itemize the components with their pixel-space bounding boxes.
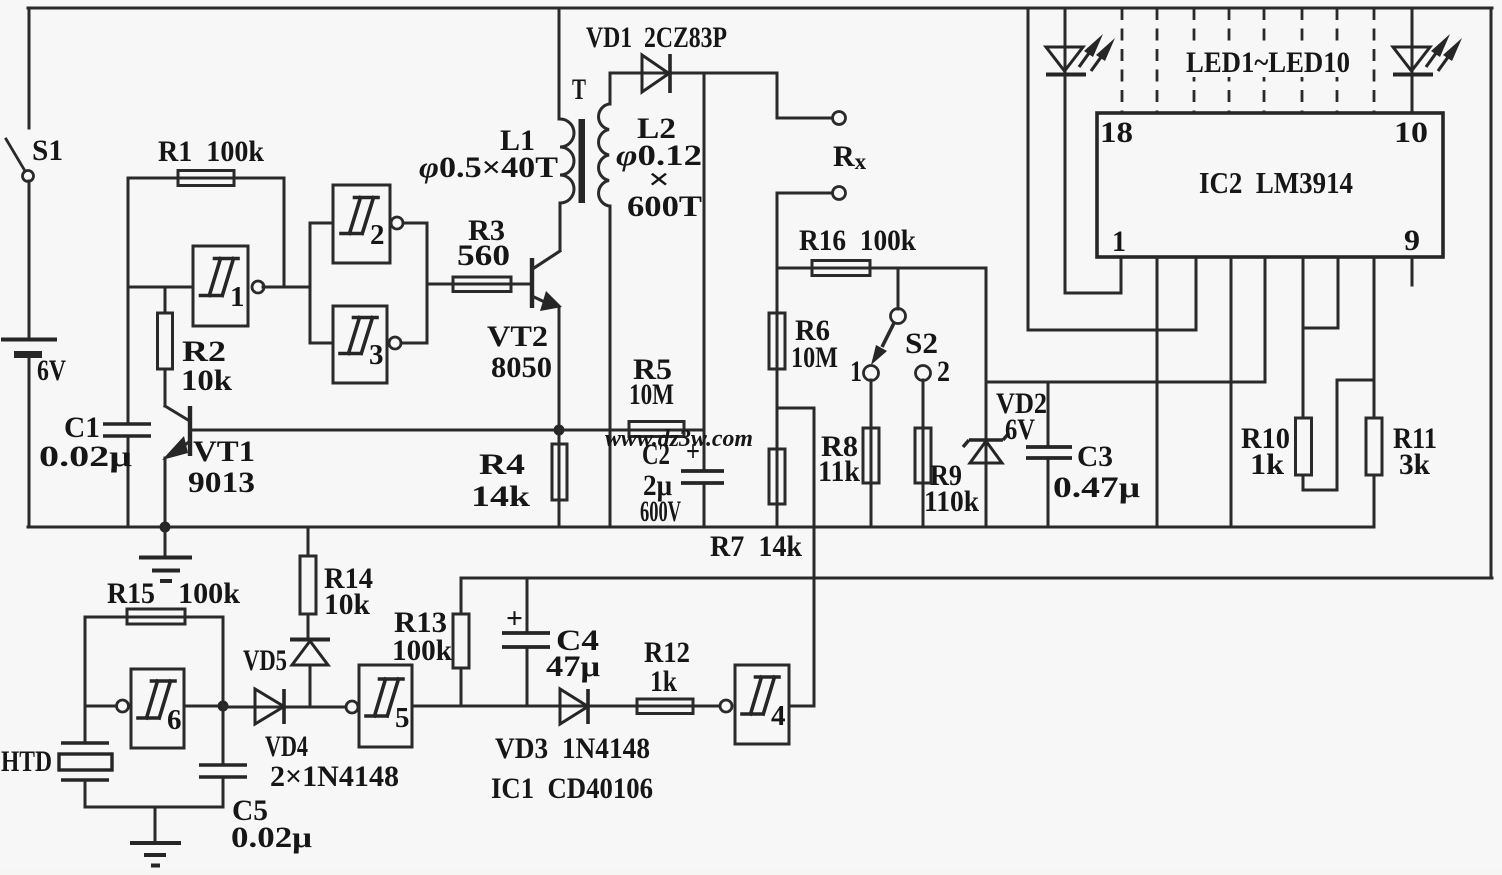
wire S1 to battery [28, 181, 31, 338]
svg-text:HTD: HTD [1, 745, 52, 778]
node VT1 emitter bus junction [160, 522, 171, 533]
svg-text:110k: 110k [924, 485, 979, 518]
svg-text:T: T [572, 73, 586, 106]
diode VD1 2CZ83P [586, 21, 777, 93]
wire regulated supply node [986, 381, 1265, 384]
svg-text:9: 9 [1404, 224, 1420, 257]
wire pin4 to bus [1230, 257, 1233, 527]
op-amp U3 schmitt inverter 3 [333, 306, 427, 383]
resistor R7 [710, 408, 802, 563]
op-amp U5 schmitt inverter 5 [346, 665, 412, 747]
node LED1-LED10 net label [1182, 46, 1354, 79]
diode VD2 zener 6V [963, 268, 1047, 527]
wire split to U2 U3 [310, 223, 333, 343]
switch S1 [6, 134, 63, 182]
inductor L1 primary [419, 119, 574, 203]
resistor R16 [777, 224, 986, 276]
transformer T core [572, 73, 586, 203]
wire left column [127, 178, 130, 527]
resistor R1 [158, 135, 264, 186]
svg-text:R1 100k: R1 100k [158, 135, 264, 168]
svg-text:VD5: VD5 [243, 644, 287, 677]
svg-text:IC1 CD40106: IC1 CD40106 [491, 772, 653, 805]
resistor R6 [769, 268, 838, 408]
svg-text:S1: S1 [32, 134, 63, 167]
svg-text:9013: 9013 [188, 466, 255, 499]
LED1 [1046, 8, 1115, 293]
svg-text:5: 5 [395, 702, 410, 734]
svg-text:1: 1 [1112, 225, 1126, 258]
wire top border bus [28, 7, 1492, 10]
svg-text:3k: 3k [1399, 448, 1430, 481]
svg-text:Rx: Rx [833, 140, 867, 174]
wire Rx bottom to R16 [777, 193, 832, 268]
svg-text:C3: C3 [1077, 440, 1113, 473]
resistor R3 [427, 214, 531, 292]
wire L1 bottom to VT2 collector [534, 203, 560, 268]
wire right border [1490, 8, 1493, 578]
svg-text:R7 14k: R7 14k [710, 530, 802, 563]
svg-text:10k: 10k [181, 364, 232, 397]
resistor R4 [471, 430, 567, 527]
resistor R11 [1366, 418, 1437, 527]
svg-text:10: 10 [1394, 116, 1428, 149]
resistor R10 [1241, 380, 1374, 490]
op-amp U4 schmitt inverter 4 [720, 665, 814, 744]
wire pin2 to bus [1156, 257, 1159, 527]
svg-text:0.02μ: 0.02μ [39, 440, 132, 473]
svg-text:φ0.5×40T: φ0.5×40T [419, 151, 558, 184]
op-amp U6 schmitt inverter 6 [117, 669, 224, 748]
svg-text:4: 4 [771, 700, 786, 732]
resistor R2 [158, 287, 233, 406]
wire main ground bus [28, 526, 1374, 529]
capacitor C4 electrolytic [502, 578, 600, 706]
svg-text:600T: 600T [627, 190, 702, 223]
wire R15 left to HTD [84, 617, 87, 743]
resistor R12 [637, 636, 693, 714]
svg-text:6V: 6V [1005, 413, 1035, 446]
capacitor C5 [199, 706, 312, 854]
svg-text:www.dz3w.com: www.dz3w.com [605, 426, 753, 452]
switch S2 [850, 268, 950, 388]
svg-text:0.47μ: 0.47μ [1053, 471, 1140, 504]
battery 6V [1, 340, 66, 388]
capacitor C3 [1026, 382, 1140, 527]
resistor R8 [818, 380, 879, 527]
capacitor C2 electrolytic [640, 73, 724, 528]
capacitor C1 [39, 411, 151, 473]
ground symbol bottom left [130, 807, 181, 866]
piezo element HTD [1, 743, 112, 807]
svg-text:VD3 1N4148: VD3 1N4148 [495, 732, 650, 765]
svg-text:R4: R4 [479, 448, 525, 481]
svg-text:VD4: VD4 [265, 730, 308, 763]
watermark [605, 426, 753, 452]
resistor R13 [392, 578, 469, 706]
inductor L2 secondary [599, 73, 702, 223]
svg-text:14k: 14k [471, 480, 530, 513]
svg-text:VT1: VT1 [193, 435, 255, 468]
resistor R5 [629, 353, 684, 437]
resistor R15 [85, 577, 240, 624]
svg-text:100k: 100k [178, 577, 240, 610]
svg-text:10k: 10k [324, 588, 370, 621]
svg-text:600V: 600V [640, 495, 681, 528]
resistor R14 [300, 527, 373, 639]
wire VT1 collector rail [190, 429, 704, 432]
resistor R9 [915, 380, 979, 527]
op-amp IC2 LM3914 [1097, 113, 1443, 258]
diode VD4 [223, 689, 399, 793]
wire VD1 to Rx top terminal [777, 73, 832, 118]
wire HTD C5 bottom link [85, 806, 223, 809]
transistor VT2 8050 [487, 251, 562, 430]
node VT2 emitter junction [554, 425, 565, 436]
wire U6 input tee [85, 705, 116, 708]
diode VD5 [243, 640, 330, 708]
svg-text:100k: 100k [392, 634, 452, 667]
svg-text:R15: R15 [107, 577, 155, 610]
wire battery to ground bus [28, 358, 31, 527]
ground under VT1 [139, 527, 192, 581]
wire R1 feedback top [128, 177, 284, 180]
svg-text:11k: 11k [818, 455, 860, 488]
wire LED1 cathode to pin1 [1065, 257, 1121, 293]
wire L1 top from border [558, 8, 561, 119]
node Rx bottom terminal [833, 140, 867, 200]
wire V+ drop from top border [1028, 8, 1196, 330]
svg-text:+: + [506, 602, 523, 635]
LED10 [1393, 8, 1462, 113]
wire left supply rail upper [28, 8, 31, 128]
svg-text:2: 2 [370, 219, 385, 251]
wire U1 input [128, 286, 193, 289]
wire sense node to U4 output [777, 408, 814, 706]
wire pin5 to regulated node [1264, 257, 1267, 382]
svg-text:47μ: 47μ [546, 650, 600, 683]
wire U5 output rail [412, 705, 560, 708]
svg-text:1k: 1k [650, 665, 677, 698]
svg-text:1: 1 [850, 355, 862, 388]
wire dashed LED2-LED9 anode lines [1122, 8, 1374, 113]
svg-text:6V: 6V [37, 354, 66, 387]
wire L2 bottom leg [609, 206, 612, 527]
diode VD3 1N4148 [491, 689, 720, 805]
svg-text:LED1~LED10: LED1~LED10 [1186, 46, 1350, 79]
wire R1 right leg [283, 178, 286, 287]
svg-text:10M: 10M [791, 341, 838, 374]
wire pin8 leg [1373, 257, 1376, 418]
svg-text:8050: 8050 [491, 351, 552, 384]
svg-text:S2: S2 [905, 327, 938, 360]
wire pins6-7 tie [1303, 257, 1338, 418]
svg-text:10M: 10M [629, 378, 674, 411]
svg-text:VD1 2CZ83P: VD1 2CZ83P [586, 21, 727, 54]
svg-text:R16 100k: R16 100k [799, 224, 916, 257]
node Rx top terminal [833, 112, 846, 125]
wire bottom border [461, 577, 1492, 580]
svg-text:2×1N4148: 2×1N4148 [270, 760, 399, 793]
svg-text:1k: 1k [1250, 448, 1284, 481]
transistor VT1 9013 [162, 406, 255, 527]
svg-text:IC2 LM3914: IC2 LM3914 [1199, 165, 1353, 200]
svg-text:1: 1 [230, 281, 245, 313]
op-amp U1 schmitt inverter 1 [193, 246, 310, 326]
wire U2 U3 outputs join [426, 223, 429, 343]
svg-text:18: 18 [1100, 116, 1133, 149]
svg-text:6: 6 [167, 704, 182, 736]
op-amp U2 schmitt inverter 2 [333, 185, 427, 263]
svg-text:VT2: VT2 [487, 320, 548, 353]
svg-text:3: 3 [369, 339, 384, 371]
svg-text:2: 2 [937, 355, 950, 388]
svg-text:560: 560 [457, 239, 510, 272]
svg-text:0.02μ: 0.02μ [231, 821, 312, 854]
wire pin9 stub [1411, 257, 1414, 285]
node U6 output junction [218, 617, 229, 712]
